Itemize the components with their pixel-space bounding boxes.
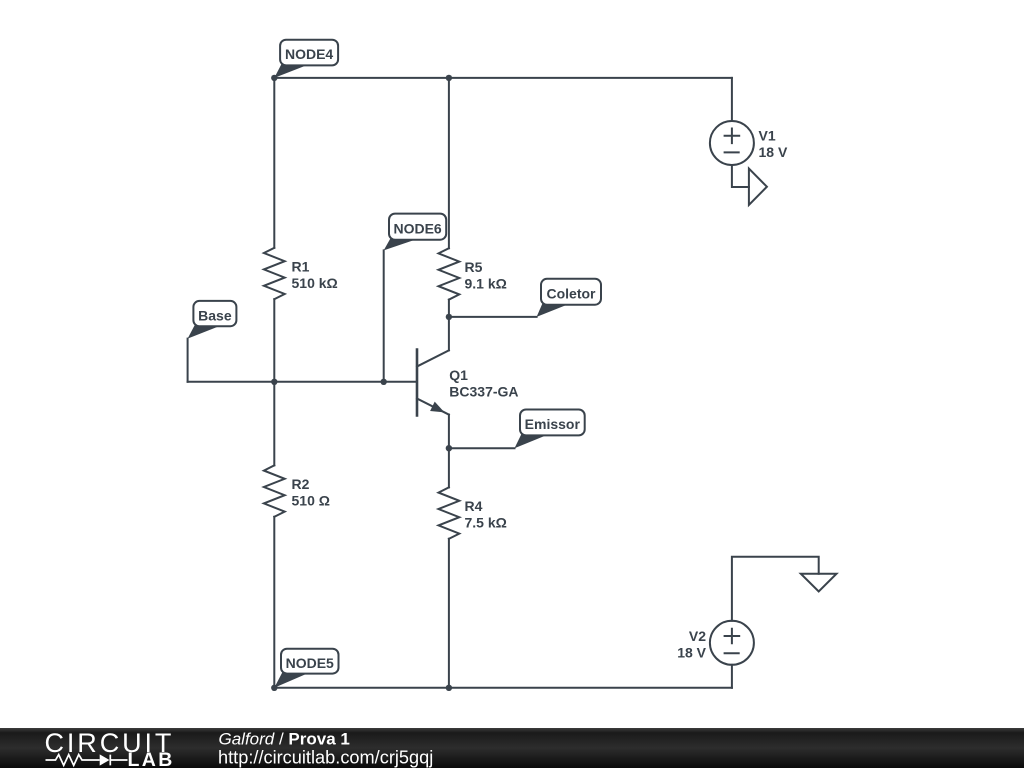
voltage source V2 circle: [710, 621, 754, 665]
resistor R4: [439, 487, 460, 538]
node label callout NODE4: [274, 40, 338, 78]
svg-text:Galford / Prova 1: Galford / Prova 1: [219, 729, 350, 748]
voltage source V1 plus sign: [725, 129, 740, 144]
label R1 value: [292, 259, 338, 291]
wire base horizontal to transistor base: [188, 381, 417, 383]
svg-text:18 V: 18 V: [759, 144, 788, 160]
wire V1 top lead: [731, 78, 733, 121]
label V1 value: [759, 128, 788, 160]
wire left vertical middle (R1 to R2 through base junction): [273, 299, 275, 465]
svg-text:http://circuitlab.com/crj5gqj: http://circuitlab.com/crj5gqj: [218, 747, 433, 767]
svg-text:Coletor: Coletor: [547, 285, 597, 301]
label R2 value: [292, 476, 330, 508]
wire R5 bottom lead to collector node: [448, 300, 450, 317]
wire emitter node to R4: [448, 448, 450, 487]
svg-text:V2: V2: [689, 628, 706, 644]
node label callout Coletor: [537, 279, 601, 317]
node label callout NODE6: [384, 214, 447, 251]
ground symbol at V1 (right-pointing triangle): [749, 169, 767, 205]
wire V2 bottom lead: [731, 665, 733, 688]
wire collector vertical into transistor: [448, 317, 450, 350]
wire bottom horizontal (NODE5 to V2): [274, 687, 732, 689]
label Q1 value: [449, 367, 518, 399]
junction base wire / NODE6 wire: [381, 379, 387, 385]
svg-text:Emissor: Emissor: [525, 416, 581, 432]
wire collector branch to Coletor callout anchor: [449, 316, 537, 318]
wire V2 top lead to ground: [732, 557, 819, 621]
wire R4 bottom lead to bottom wire: [448, 539, 450, 688]
junction emitter node: [446, 445, 452, 451]
svg-text:NODE5: NODE5: [286, 655, 334, 671]
svg-text:Base: Base: [198, 307, 232, 323]
svg-text:LAB: LAB: [128, 749, 175, 768]
svg-text:510 kΩ: 510 kΩ: [292, 275, 338, 291]
wire from NODE6 callout anchor down to base wire: [383, 250, 385, 381]
wire left vertical upper (NODE4 to R1): [273, 78, 275, 248]
voltage source V2 minus sign: [725, 652, 739, 654]
transistor Q1 emitter diagonal: [417, 399, 449, 415]
wire emitter vertical to emitter node: [448, 415, 450, 449]
wire middle vertical (top wire to R5): [448, 78, 450, 248]
junction top wire / middle vertical: [446, 75, 452, 81]
svg-text:Q1: Q1: [449, 367, 468, 383]
label R4 value: [465, 498, 507, 530]
svg-text:7.5 kΩ: 7.5 kΩ: [465, 515, 507, 531]
resistor R2: [264, 465, 285, 516]
svg-text:510 Ω: 510 Ω: [292, 493, 330, 509]
svg-text:R5: R5: [465, 259, 483, 275]
transistor Q1 base bar: [416, 350, 419, 416]
node label callout Emissor: [515, 410, 585, 449]
wire top horizontal NODE4 to V1: [274, 77, 732, 79]
svg-text:V1: V1: [759, 128, 776, 144]
voltage source V1 circle: [710, 121, 754, 165]
node label callout Base: [188, 301, 237, 339]
resistor R5: [439, 248, 460, 299]
junction collector node: [446, 314, 452, 320]
junction node at NODE5 anchor: [271, 685, 277, 691]
svg-text:R4: R4: [465, 498, 483, 514]
svg-text:18 V: 18 V: [677, 644, 706, 660]
junction bottom wire / R4: [446, 685, 452, 691]
wire emitter branch to Emissor callout anchor: [449, 447, 515, 449]
ground symbol at V2 (down-pointing triangle): [801, 574, 837, 592]
svg-text:R1: R1: [292, 259, 310, 275]
wire left vertical lower (R2 to NODE5): [273, 517, 275, 688]
transistor Q1 emitter arrowhead: [430, 402, 444, 413]
footer logo resistor-diode art: [46, 754, 128, 765]
svg-text:9.1 kΩ: 9.1 kΩ: [465, 275, 507, 291]
junction node at NODE4 anchor: [271, 75, 277, 81]
svg-text:NODE4: NODE4: [285, 46, 333, 62]
node label callout NODE5: [274, 649, 338, 688]
svg-text:BC337-GA: BC337-GA: [449, 384, 518, 400]
voltage source V1 minus sign: [725, 151, 739, 153]
footer bar: [0, 728, 1024, 768]
junction base wire / left vertical: [271, 379, 277, 385]
label R5 value: [465, 259, 507, 291]
wire from Base callout anchor down to base wire: [187, 339, 189, 382]
voltage source V2 plus sign: [725, 629, 740, 644]
label V2 value: [677, 628, 706, 660]
svg-text:R2: R2: [292, 476, 310, 492]
wire V1 negative lead to ground: [732, 165, 749, 187]
transistor Q1 collector diagonal: [417, 350, 449, 366]
svg-text:NODE6: NODE6: [393, 220, 441, 236]
resistor R1: [264, 248, 285, 299]
